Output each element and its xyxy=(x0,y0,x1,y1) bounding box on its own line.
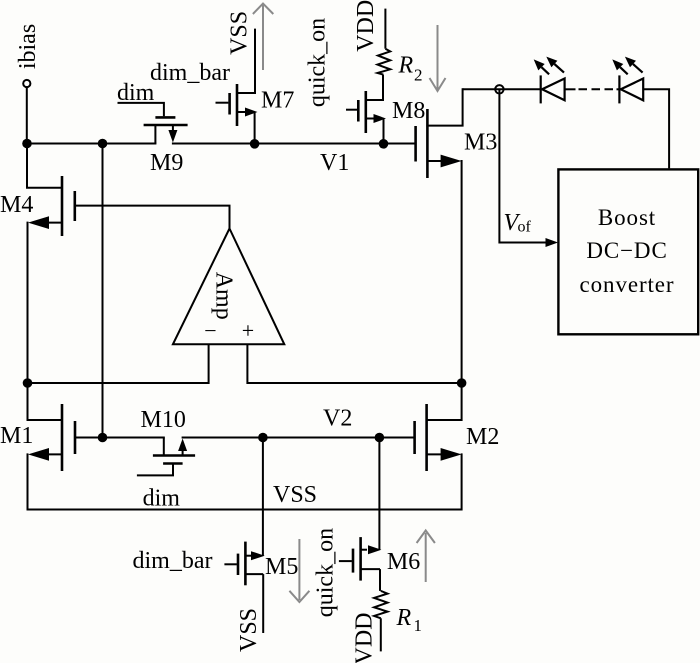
svg-text:−: − xyxy=(204,318,216,343)
svg-text:Amp: Amp xyxy=(211,272,237,320)
svg-text:of: of xyxy=(518,219,532,236)
svg-text:+: + xyxy=(242,318,254,343)
svg-text:M6: M6 xyxy=(387,549,420,575)
svg-text:V2: V2 xyxy=(323,406,352,432)
svg-text:VDD: VDD xyxy=(353,0,379,52)
svg-text:DC−DC: DC−DC xyxy=(586,238,667,263)
svg-text:M3: M3 xyxy=(464,130,497,156)
svg-text:2: 2 xyxy=(414,66,423,85)
svg-text:VSS: VSS xyxy=(273,482,317,508)
svg-text:dim: dim xyxy=(143,486,181,512)
svg-text:ibias: ibias xyxy=(15,24,41,69)
svg-text:dim_bar: dim_bar xyxy=(133,548,213,574)
svg-text:M10: M10 xyxy=(141,407,186,433)
svg-text:1: 1 xyxy=(414,616,423,635)
svg-text:M8: M8 xyxy=(392,98,425,124)
svg-text:R: R xyxy=(396,605,412,631)
svg-text:M4: M4 xyxy=(0,192,33,218)
svg-text:M7: M7 xyxy=(261,88,294,114)
svg-text:V1: V1 xyxy=(320,150,349,176)
svg-text:M1: M1 xyxy=(0,423,33,449)
svg-text:quick_on: quick_on xyxy=(305,18,331,107)
svg-text:quick_on: quick_on xyxy=(313,528,339,617)
svg-text:VDD: VDD xyxy=(352,613,378,663)
svg-text:R: R xyxy=(398,53,414,79)
svg-text:M2: M2 xyxy=(466,424,499,450)
svg-text:converter: converter xyxy=(580,272,675,297)
svg-text:VSS: VSS xyxy=(227,11,253,55)
svg-text:Boost: Boost xyxy=(598,205,656,230)
svg-text:M5: M5 xyxy=(265,554,298,580)
svg-text:VSS: VSS xyxy=(236,608,262,652)
svg-text:dim_bar: dim_bar xyxy=(150,60,230,86)
svg-text:M9: M9 xyxy=(150,150,183,176)
